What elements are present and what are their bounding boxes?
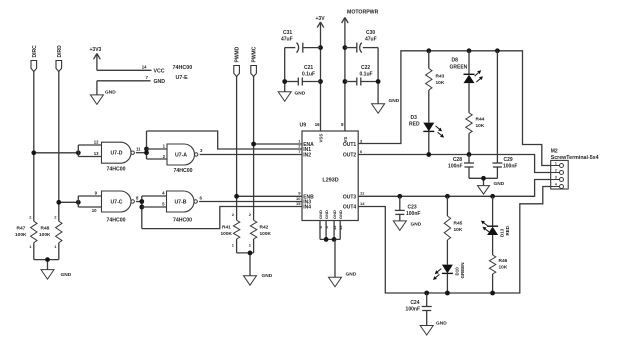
pin number 14 — [142, 65, 147, 70]
svg-text:100K: 100K — [221, 231, 233, 237]
junction rail R46 — [490, 291, 495, 296]
svg-text:13: 13 — [94, 151, 99, 156]
svg-text:GND: GND — [389, 98, 400, 104]
label D8 — [450, 58, 468, 71]
pin label VSS — [319, 134, 324, 143]
resistor R42 — [250, 220, 256, 239]
svg-text:DIRD: DIRD — [57, 45, 63, 58]
label R46 — [499, 258, 508, 271]
pin number 12 — [94, 140, 99, 145]
pin number 10p — [296, 196, 301, 201]
svg-text:R45: R45 — [454, 221, 463, 227]
led D3 arrows — [436, 126, 445, 138]
label R48 — [39, 226, 51, 238]
junction OUT3 R45 — [445, 194, 450, 199]
svg-text:0.1uF: 0.1uF — [360, 71, 373, 77]
wire U7-D output — [136, 152, 147, 154]
svg-text:VCC: VCC — [154, 68, 165, 74]
pin number 13 — [94, 151, 99, 156]
pin number 8 — [136, 195, 139, 200]
svg-text:C22: C22 — [361, 65, 370, 71]
pin number 2p — [298, 143, 301, 148]
pin label OUT2 — [343, 153, 357, 159]
label R43 — [436, 74, 445, 87]
label R42 — [260, 225, 272, 237]
svg-text:C31: C31 — [283, 30, 292, 36]
wire node B to U7-B pin4 — [142, 195, 167, 197]
pin label IN3 — [303, 200, 311, 206]
svg-text:R47: R47 — [17, 226, 26, 232]
wire PWMD vertical — [236, 77, 238, 221]
pin number 6p — [360, 149, 363, 154]
node DIRC junction — [31, 150, 36, 155]
svg-text:GND: GND — [105, 90, 116, 96]
svg-text:D3: D3 — [411, 115, 418, 121]
junction OUT2 D3 — [426, 152, 431, 157]
svg-text:11: 11 — [136, 146, 141, 151]
svg-text:PWMC: PWMC — [252, 46, 258, 62]
junction +3V C21 — [318, 79, 323, 84]
svg-text:U9: U9 — [300, 123, 307, 129]
wire R45 to D10 — [446, 240, 448, 265]
svg-text:GND: GND — [295, 91, 306, 97]
pin number R41-1 — [232, 243, 235, 248]
junction C22 gnd — [376, 79, 381, 84]
label R45 — [454, 221, 463, 234]
wire VCC pin14 — [97, 69, 152, 71]
led D10 — [442, 265, 453, 274]
led D3 — [423, 123, 434, 132]
connector pin DIRD — [56, 45, 63, 72]
pin number 11 — [136, 146, 141, 151]
label R41 — [221, 225, 233, 237]
label L293D — [322, 178, 338, 184]
pin label VS — [343, 137, 348, 143]
ic U9 box — [302, 131, 358, 221]
pin number R42-1 — [249, 243, 252, 248]
svg-text:100K: 100K — [260, 231, 272, 237]
svg-text:16: 16 — [315, 122, 320, 127]
label D10 — [454, 262, 465, 278]
pin number 10 — [92, 208, 97, 213]
svg-text:GND: GND — [436, 320, 447, 326]
pin number 13b — [338, 225, 343, 230]
wire C30 C22 gnd — [377, 48, 379, 104]
wire R43 to D3 — [428, 90, 430, 123]
wire U7-D input stubs — [78, 145, 101, 157]
wire U9 gnd stem — [334, 239, 336, 277]
junction OUT3 D13 — [490, 194, 495, 199]
pin number 16 — [315, 122, 320, 127]
ground R47R48 — [41, 270, 72, 280]
nand gate U7-D — [102, 142, 135, 163]
svg-text:RED: RED — [505, 225, 510, 235]
junction rail D10 — [445, 291, 450, 296]
wire D8 to R44 — [468, 83, 470, 113]
junction R47R48 gnd — [45, 257, 50, 262]
pin number 4b — [318, 226, 323, 229]
wire D10 to rail — [446, 273, 448, 293]
svg-text:U7-B: U7-B — [174, 199, 186, 205]
svg-text:GND: GND — [154, 79, 166, 85]
svg-text:GND: GND — [61, 272, 72, 278]
wire R47 R48 join — [34, 243, 59, 270]
resistor R45 — [444, 216, 450, 240]
capacitor C29 — [492, 51, 517, 179]
svg-text:10K: 10K — [476, 123, 485, 129]
wire OUT2 to terminal — [358, 155, 551, 173]
junction U9 gnd a — [324, 237, 329, 242]
svg-text:R44: R44 — [476, 117, 485, 123]
label R44 — [476, 117, 485, 130]
svg-text:GND: GND — [332, 210, 337, 219]
ground U9 — [329, 272, 357, 287]
svg-text:4: 4 — [555, 182, 557, 186]
ground C23 — [393, 221, 421, 231]
wire node A to U7-A pin2 — [147, 158, 168, 160]
wire D13 to R46 — [492, 235, 494, 255]
svg-text:R42: R42 — [260, 225, 269, 231]
svg-text:GND: GND — [346, 272, 357, 278]
svg-text:D10: D10 — [454, 267, 459, 276]
svg-text:M2: M2 — [551, 149, 558, 155]
wire PWMD to ENB — [237, 195, 302, 197]
pin number R48-2 — [54, 215, 57, 220]
label U9 — [300, 123, 307, 129]
ground C30C22 — [372, 98, 400, 113]
wire node A to U7-A pin1 — [147, 148, 168, 150]
pin number 3p — [360, 138, 363, 143]
capacitor C24 — [406, 293, 432, 326]
pin number 12b — [332, 225, 337, 230]
pin label OUT4 — [343, 205, 357, 211]
junction U9 gnd b — [332, 237, 337, 242]
ground C31C21 — [278, 91, 305, 102]
svg-text:100K: 100K — [39, 232, 51, 238]
svg-text:C29: C29 — [504, 157, 513, 163]
label D13 — [499, 225, 510, 237]
wire OUT3 to D13 — [492, 196, 494, 226]
led D13 — [487, 226, 498, 235]
svg-text:14: 14 — [360, 201, 365, 206]
pin number 1p — [298, 138, 301, 143]
svg-text:47uF: 47uF — [365, 37, 377, 43]
ground C28C29 — [478, 181, 505, 194]
node DIRD junction — [56, 200, 61, 205]
pin number 15p — [296, 201, 301, 206]
ground C24 — [420, 320, 447, 335]
svg-text:74HC00: 74HC00 — [173, 168, 192, 174]
pin label GND4x — [318, 210, 343, 219]
svg-text:+3V3: +3V3 — [90, 47, 102, 53]
pin label OUT3 — [343, 194, 357, 200]
pin number 4 — [162, 191, 165, 196]
power +3V3 symbol — [90, 47, 102, 70]
svg-text:+3V: +3V — [316, 16, 326, 22]
wire C31 C21 gnd — [284, 48, 286, 92]
svg-text:L293D: L293D — [322, 178, 338, 184]
wire PWMC to ENA — [254, 143, 302, 145]
wire node B to U7-B pin5 — [142, 206, 167, 208]
junction PWMC ENA — [251, 142, 256, 147]
svg-text:100nF: 100nF — [406, 307, 420, 313]
label GND pin7 — [154, 79, 166, 85]
svg-text:10K: 10K — [454, 227, 463, 233]
svg-text:OUT3: OUT3 — [343, 194, 357, 200]
svg-text:15: 15 — [296, 201, 301, 206]
svg-text:OUT1: OUT1 — [343, 142, 357, 148]
pin number 9 — [95, 191, 98, 196]
junction node A out — [144, 150, 149, 155]
pin number 8p — [341, 122, 344, 127]
svg-text:PWMD: PWMD — [235, 46, 241, 62]
svg-text:OUT2: OUT2 — [343, 153, 357, 159]
svg-text:12: 12 — [94, 140, 99, 145]
capacitor C23 — [395, 196, 421, 221]
svg-text:100K: 100K — [15, 232, 27, 238]
pin label ENA — [303, 142, 314, 148]
svg-text:R41: R41 — [222, 225, 231, 231]
svg-text:GND: GND — [262, 273, 273, 279]
pin label IN2 — [303, 153, 311, 159]
wire DIRC to U7-D — [34, 152, 79, 154]
led D8 — [464, 74, 475, 83]
svg-text:C30: C30 — [366, 30, 375, 36]
junction PWMD ENB — [234, 194, 239, 199]
wire OUT1 to rail — [358, 51, 551, 166]
svg-text:IN4: IN4 — [303, 205, 311, 211]
svg-text:IN2: IN2 — [303, 153, 311, 159]
svg-text:MOTORPWR: MOTORPWR — [347, 9, 379, 15]
svg-text:C24: C24 — [410, 300, 419, 306]
node B vertical — [141, 196, 143, 229]
pin number R47-2 — [29, 215, 32, 220]
svg-text:14: 14 — [142, 65, 147, 70]
wire U7-A output to IN2 — [200, 154, 302, 156]
wire R41 R42 join — [237, 239, 254, 276]
junction rail C24 — [424, 291, 429, 296]
resistor R48 — [56, 221, 62, 243]
svg-text:100nF: 100nF — [503, 164, 517, 170]
junction U7-D inputs — [76, 150, 81, 155]
resistor R43 — [426, 69, 432, 91]
svg-text:U7-A: U7-A — [175, 153, 187, 159]
svg-text:74HC00: 74HC00 — [173, 217, 192, 223]
svg-text:10K: 10K — [436, 80, 445, 86]
svg-text:GND: GND — [324, 210, 329, 219]
svg-text:47uF: 47uF — [281, 37, 293, 43]
pin number 9p — [298, 191, 301, 196]
wire OUT3 to R45 — [446, 196, 448, 216]
wire GND pin7 — [97, 81, 151, 95]
capacitor C21 — [285, 65, 321, 86]
junction OUT3 C23 — [397, 194, 402, 199]
pin number 7 — [146, 75, 149, 80]
svg-text:74HC00: 74HC00 — [106, 166, 125, 172]
wire OUT4 bottom rail — [358, 187, 551, 294]
wire R46 to rail — [492, 274, 494, 293]
resistor R47 — [31, 221, 37, 243]
wire C28 C29 join — [469, 178, 497, 185]
svg-text:GREEN: GREEN — [450, 65, 468, 71]
label 74HC00 U7-A — [173, 168, 192, 174]
svg-text:DIRC: DIRC — [32, 45, 38, 58]
capacitor C30 — [345, 30, 378, 53]
wire DIRC vertical — [33, 72, 35, 222]
pin number R42-2 — [249, 212, 252, 217]
wire node B under-route to IN4 — [142, 207, 302, 229]
junction node A pin1 — [144, 147, 149, 152]
svg-text:10: 10 — [92, 208, 97, 213]
svg-text:OUT4: OUT4 — [343, 205, 357, 211]
connector pin PWMC — [251, 46, 258, 76]
wire rail to R43 — [428, 51, 430, 69]
svg-text:GND: GND — [494, 181, 505, 187]
nand gate U7-C — [102, 191, 135, 212]
svg-text:R46: R46 — [499, 258, 508, 264]
wire node A over-route to IN1 — [147, 131, 303, 149]
pin number 1 — [163, 143, 166, 148]
wire R44 to OUT2 — [468, 133, 470, 154]
svg-text:U7-E: U7-E — [176, 75, 189, 81]
svg-text:10K: 10K — [499, 265, 508, 271]
wire U7-C output — [136, 201, 142, 203]
wire rail to D8 — [468, 51, 470, 75]
pin number 5 — [162, 202, 165, 207]
connector pin DIRC — [31, 45, 38, 72]
wire DIRD vertical — [58, 72, 60, 222]
junction OUT2 D8 C28 — [467, 152, 472, 157]
junction MOTORPWR C22 — [343, 79, 348, 84]
junction R41R42 gnd — [248, 251, 253, 256]
ground U7-E — [90, 90, 116, 105]
pin label ENB — [303, 194, 314, 200]
wire OUT3 to terminal — [358, 180, 551, 197]
svg-text:GREEN: GREEN — [460, 262, 465, 278]
svg-text:C21: C21 — [304, 65, 313, 71]
svg-text:GND: GND — [338, 210, 343, 219]
resistor R46 — [489, 255, 495, 274]
junction C28C29 gnd — [481, 176, 486, 181]
label VCC — [154, 68, 165, 74]
label 74HC00 U7-E — [173, 65, 193, 81]
svg-text:VSS: VSS — [319, 134, 324, 143]
svg-text:C28: C28 — [453, 157, 462, 163]
junction MOTORPWR C30 — [343, 45, 348, 50]
svg-text:12: 12 — [332, 225, 337, 230]
junction +3V C31 — [318, 45, 323, 50]
pin number 14p — [360, 201, 365, 206]
wire U7-C input stubs — [78, 196, 101, 207]
svg-text:1: 1 — [555, 161, 557, 165]
led D10 arrows — [433, 269, 441, 280]
svg-text:13: 13 — [338, 225, 343, 230]
label 74HC00 U7-C — [106, 217, 125, 223]
pin number R47-1 — [29, 244, 32, 249]
power +3V symbol — [316, 16, 326, 131]
capacitor C31 — [281, 30, 321, 53]
led D8 arrows — [475, 70, 483, 82]
terminal M2 box — [551, 160, 569, 189]
pin number 6 — [200, 195, 203, 200]
svg-text:0.1uF: 0.1uF — [302, 71, 315, 77]
label 74HC00 U7-D — [106, 166, 125, 172]
junction rail C29 — [495, 48, 500, 53]
resistor R44 — [466, 113, 472, 134]
junction node B out — [139, 199, 144, 204]
connector pin PWMD — [234, 46, 241, 76]
junction rail R43 — [426, 48, 431, 53]
pin number 11p — [360, 191, 365, 196]
svg-text:GND: GND — [411, 222, 422, 228]
svg-text:D13: D13 — [499, 228, 504, 237]
svg-text:U7-D: U7-D — [110, 151, 122, 157]
wire DIRD to U7-C — [59, 201, 79, 203]
pin number R48-1 — [54, 244, 57, 249]
svg-text:R43: R43 — [436, 74, 445, 80]
svg-text:GND: GND — [318, 210, 323, 219]
junction U7-C inputs — [76, 200, 81, 205]
label 74HC00 U7-B — [173, 217, 192, 223]
svg-text:74HC00: 74HC00 — [106, 217, 125, 223]
svg-text:R48: R48 — [41, 226, 50, 232]
node A vertical — [146, 131, 148, 159]
svg-text:D8: D8 — [452, 58, 459, 64]
svg-text:74HC00: 74HC00 — [173, 65, 193, 71]
resistor R41 — [233, 220, 239, 239]
led D13 arrows — [481, 221, 489, 232]
wire PWMC vertical — [253, 77, 255, 221]
wire D3 to OUT2 — [428, 131, 430, 154]
svg-text:U7-C: U7-C — [110, 199, 122, 205]
svg-text:100nF: 100nF — [406, 211, 420, 217]
pin number 7p — [298, 149, 301, 154]
junction rail D8 — [467, 48, 472, 53]
ground R41R42 — [244, 273, 273, 285]
svg-text:RED: RED — [409, 122, 420, 128]
svg-text:100nF: 100nF — [448, 164, 462, 170]
junction C21 gnd — [282, 79, 287, 84]
pin number 2 — [163, 154, 166, 159]
svg-text:C23: C23 — [408, 204, 417, 210]
junction node B pin5 — [139, 205, 144, 210]
nand gate U7-A — [167, 144, 198, 165]
pin label OUT1 — [343, 142, 357, 148]
pin label IN4 — [303, 205, 311, 211]
label M2 — [551, 149, 599, 161]
nand gate U7-B — [167, 191, 198, 212]
label R47 — [15, 226, 27, 238]
label D3 — [409, 115, 420, 128]
pin number R41-2 — [232, 212, 235, 217]
svg-text:2: 2 — [555, 168, 557, 172]
wire U9 gnd pins — [320, 221, 340, 240]
pin number 3 — [200, 148, 203, 153]
svg-text:3: 3 — [555, 175, 557, 179]
pin number 5b — [324, 226, 329, 229]
capacitor C22 — [345, 65, 378, 86]
capacitor C28 — [448, 155, 474, 179]
power MOTORPWR symbol — [342, 9, 379, 131]
wire U7-B output to IN3 — [199, 201, 302, 203]
pin label IN1 — [303, 147, 311, 153]
